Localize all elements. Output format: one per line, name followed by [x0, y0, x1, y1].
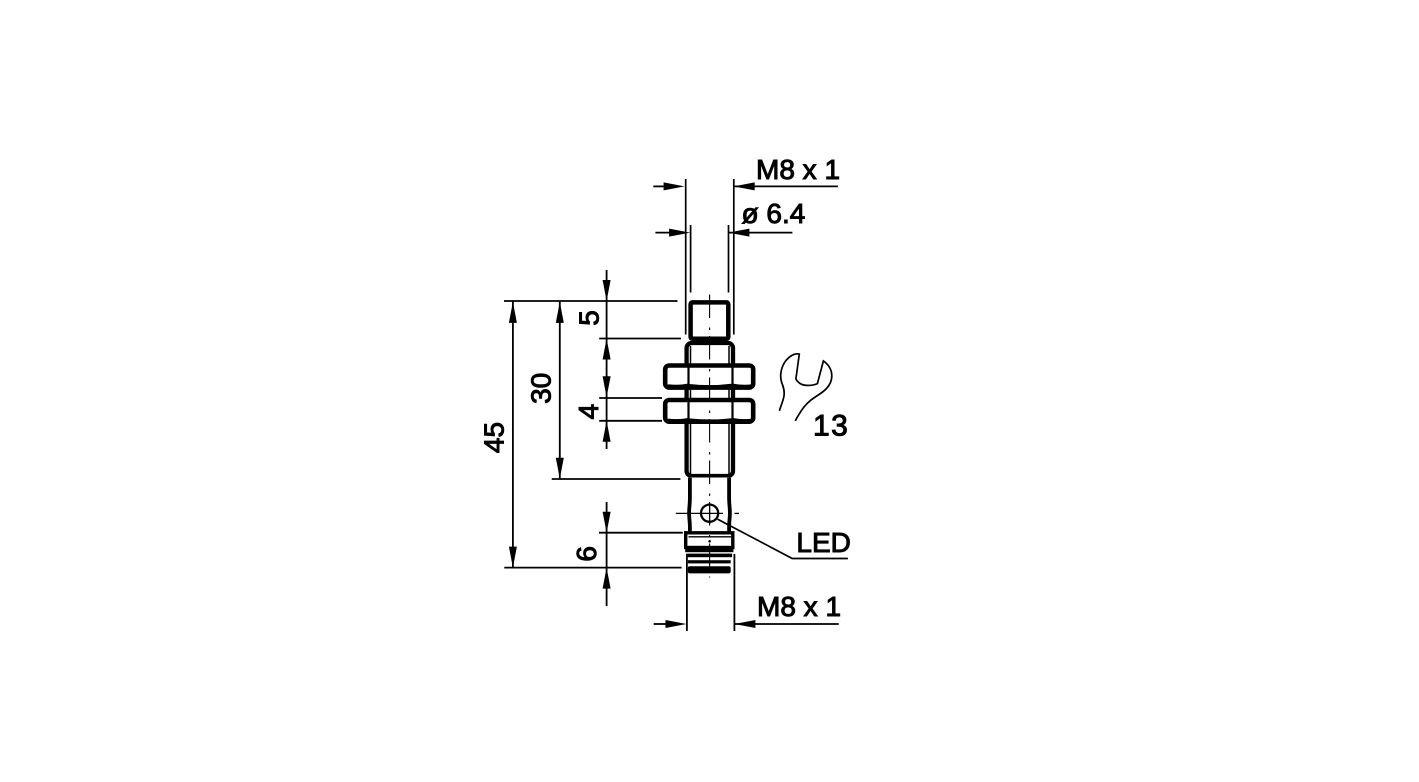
svg-text:5: 5: [573, 310, 604, 326]
thread extension lines dia 6.4 inner: [691, 225, 729, 293]
svg-text:45: 45: [479, 422, 510, 453]
dimension 4: [603, 368, 611, 449]
connector ring: [686, 533, 733, 548]
dimension 30: [556, 301, 564, 479]
extension line top (y301): [504, 300, 678, 302]
extension line nut2 top (y398): [599, 397, 662, 399]
extension line overall bottom (y567.6): [504, 567, 681, 569]
sensor head (smooth tip): [691, 302, 729, 338]
extension line 30 bottom (y479): [552, 478, 681, 480]
LED leader line: [718, 519, 848, 558]
svg-text:LED: LED: [796, 527, 850, 558]
dimension M8 x 1 top: [653, 182, 838, 190]
hex nut N2: [665, 400, 753, 422]
svg-text:4: 4: [573, 404, 604, 420]
connector housing: [689, 478, 730, 534]
hex nut N1: [665, 366, 753, 388]
barrel (threaded body): [687, 343, 733, 476]
thread minor lines: [691, 346, 730, 474]
dimension 6: [603, 502, 611, 606]
svg-text:6: 6: [571, 546, 602, 562]
svg-text:M8 x 1: M8 x 1: [757, 591, 841, 622]
vertical centerline: [709, 295, 711, 578]
extension line 6 top (y532.7): [599, 532, 683, 534]
svg-text:M8 x 1: M8 x 1: [756, 154, 840, 185]
dimension 45: [509, 301, 517, 568]
dimension M8 x 1 bottom: [654, 554, 839, 631]
wrench icon: [779, 354, 831, 421]
svg-text:ø 6.4: ø 6.4: [742, 198, 806, 229]
LED window: [676, 503, 739, 524]
dimension 5: [603, 270, 611, 369]
svg-text:30: 30: [525, 373, 556, 404]
thread extension lines M8 outer: [686, 179, 734, 335]
dimension dia 6.4: [655, 229, 792, 237]
connector knurl bands: [685, 549, 733, 574]
extension line nut2 bottom (y419.5): [599, 420, 662, 422]
extension line head bottom (y338.5): [599, 338, 681, 340]
svg-text:13: 13: [813, 410, 849, 443]
